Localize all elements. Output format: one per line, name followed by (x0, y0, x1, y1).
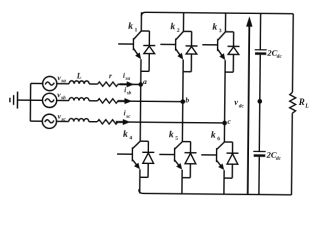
wire leg from DC+ rail (224, 13, 226, 32)
wire (89, 100, 97, 102)
resistor (97, 120, 118, 125)
current arrow i_sc (116, 109, 131, 125)
svg-text:k: k (212, 23, 217, 33)
svg-text:k: k (170, 22, 175, 32)
svg-text:sa: sa (125, 77, 131, 82)
transistor k6 (201, 131, 224, 170)
wire leg mid section (223, 60, 226, 142)
wire neutral bus (29, 83, 31, 121)
inductor L (69, 71, 89, 84)
antiparallel diode of k6 (224, 142, 239, 178)
svg-text:dc: dc (276, 156, 282, 162)
resistor r (98, 71, 119, 86)
AC source Vsc with label v_sc (42, 111, 66, 128)
resistor (97, 99, 118, 104)
svg-text:2: 2 (177, 28, 180, 34)
current arrow i_sa (120, 72, 135, 88)
wire leg to DC- rail (223, 178, 225, 194)
wire DC+ top rail (141, 12, 293, 17)
node b (180, 95, 189, 104)
wire (259, 13, 261, 49)
transistor k4 (117, 130, 140, 169)
transistor k2 (160, 22, 183, 60)
wire leg to DC- rail (139, 177, 141, 193)
transistor k5 (159, 130, 182, 169)
svg-text:a: a (143, 77, 147, 86)
wire (31, 82, 43, 84)
svg-text:L: L (304, 103, 309, 109)
wire (118, 83, 141, 85)
ground (10, 92, 18, 109)
wire leg from DC+ rail (182, 13, 184, 32)
wire (139, 169, 141, 177)
svg-text:k: k (211, 131, 216, 141)
voltage arrow v_dc (233, 16, 252, 194)
inductor (69, 118, 89, 121)
antiparallel diode of k2 (183, 31, 198, 71)
svg-text:3: 3 (219, 28, 222, 34)
wire (30, 99, 42, 101)
wire (56, 120, 68, 122)
svg-text:R: R (298, 97, 305, 107)
wire DC- bottom rail (139, 189, 292, 194)
wire (223, 170, 225, 178)
svg-text:6: 6 (217, 136, 220, 142)
AC source Vsa with label v_sa (43, 73, 67, 91)
node a (138, 77, 147, 87)
wire (57, 99, 69, 101)
wire leg from DC+ rail (140, 12, 142, 31)
wire (291, 113, 294, 195)
node c (222, 117, 231, 126)
node capacitor midpoint (257, 99, 262, 104)
wire (89, 121, 97, 123)
svg-text:dc: dc (277, 54, 283, 60)
svg-text:5: 5 (175, 136, 178, 142)
svg-text:k: k (169, 130, 174, 140)
svg-text:dc: dc (239, 104, 245, 110)
svg-text:r: r (109, 71, 112, 80)
antiparallel diode of k5 (182, 142, 197, 178)
load resistor R_L (290, 92, 310, 113)
svg-text:sb: sb (126, 91, 132, 96)
wire ground to neutral bus (17, 99, 30, 101)
svg-text:4: 4 (129, 135, 132, 141)
AC source Vsb with label v_sb (42, 90, 66, 108)
wire (89, 83, 97, 85)
wire (57, 83, 69, 85)
wire leg mid section (139, 59, 142, 141)
wire (291, 14, 294, 93)
wire (117, 100, 182, 103)
wire leg mid section (181, 60, 184, 142)
antiparallel diode of k3 (225, 32, 240, 72)
transistor k3 (202, 22, 225, 60)
wire (258, 55, 261, 152)
svg-text:sc: sc (125, 115, 131, 120)
wire (258, 157, 260, 195)
antiparallel diode of k1 (141, 31, 156, 71)
svg-text:k: k (123, 130, 128, 140)
svg-text:k: k (128, 22, 133, 32)
wire (117, 122, 224, 123)
current arrow i_sb (117, 86, 132, 104)
antiparallel diode of k4 (140, 141, 155, 177)
capacitor 2C_dc (bottom) (253, 149, 281, 161)
wire (30, 120, 42, 122)
svg-text:1: 1 (135, 27, 138, 33)
inductor (69, 98, 89, 101)
wire leg to DC- rail (181, 178, 183, 194)
svg-text:L: L (76, 71, 82, 80)
svg-text:b: b (185, 95, 189, 104)
capacitor 2C_dc (top) (255, 48, 283, 60)
wire (181, 170, 183, 178)
transistor k1 (118, 22, 141, 60)
